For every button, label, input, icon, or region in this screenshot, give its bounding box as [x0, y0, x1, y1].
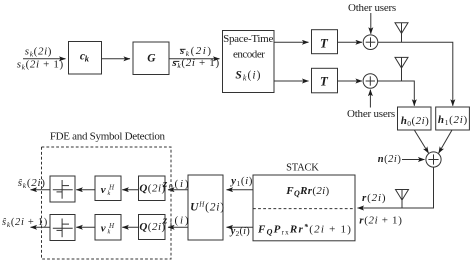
- svg-text:Q(2i): Q(2i): [139, 221, 165, 233]
- svg-text:STACK: STACK: [286, 162, 319, 173]
- svg-text:h0(2i): h0(2i): [401, 115, 430, 128]
- block T2: [312, 68, 338, 93]
- wire slicer1 output: [31, 189, 51, 191]
- wire STACK to UH row1: [227, 189, 254, 191]
- block h0: [398, 107, 432, 130]
- wire other-users top into adder1: [370, 13, 372, 34]
- wire v1 to slicer1: [76, 189, 95, 191]
- svg-text:z1(i): z1(i): [162, 215, 190, 228]
- block Space-Time encoder: [223, 31, 275, 93]
- bar over s of sbar_k(2i+1): [174, 60, 180, 62]
- adder3: [426, 152, 441, 167]
- wire h1 to adder3: [439, 130, 452, 153]
- svg-text:sk(2i): sk(2i): [25, 46, 52, 59]
- svg-text:y2(i): y2(i): [229, 226, 251, 238]
- svg-text:FDE and Symbol Detection: FDE and Symbol Detection: [50, 130, 166, 142]
- wire Q2 to v2: [122, 226, 138, 228]
- svg-text:sk(2i): sk(2i): [179, 45, 213, 58]
- block STACK: [253, 175, 355, 241]
- wire h0 to adder3: [414, 130, 428, 153]
- svg-text:Space-Time: Space-Time: [223, 33, 273, 45]
- antenna 2: [395, 57, 408, 68]
- wire UH to Q1: [168, 189, 188, 191]
- wire encoder to T1: [274, 41, 309, 43]
- svg-text:encoder: encoder: [233, 48, 265, 60]
- dashed line inside STACK: [253, 208, 355, 210]
- svg-text:r(2i): r(2i): [362, 192, 386, 204]
- block v1: [95, 176, 121, 201]
- wire G to encoder: [169, 58, 220, 60]
- wire adder1 to h1: [378, 42, 453, 106]
- wire adder3 to STACK: [358, 167, 434, 208]
- adder2: [363, 74, 377, 88]
- svg-text:ŝk(2i): ŝk(2i): [18, 177, 46, 190]
- slicer1 icon: [61, 180, 63, 199]
- wire c_k to G: [102, 58, 131, 60]
- svg-text:y1(i): y1(i): [229, 175, 253, 188]
- block Q1: [139, 176, 166, 201]
- block slicer2: [50, 215, 75, 241]
- svg-text:z0(i): z0(i): [162, 178, 190, 191]
- bar over s of sbar_k(2i): [180, 48, 186, 50]
- block slicer1: [50, 176, 75, 202]
- block T1: [312, 30, 338, 54]
- svg-text:sk(2i + 1): sk(2i + 1): [17, 59, 64, 72]
- wire input into c_k: [23, 58, 66, 60]
- wire T2 to adder2: [338, 80, 363, 82]
- svg-text:Sk(i): Sk(i): [235, 70, 261, 83]
- svg-text:T: T: [320, 36, 330, 51]
- wire Q1 to v1: [122, 189, 138, 191]
- svg-text:r(2i + 1): r(2i + 1): [359, 215, 402, 227]
- block v2: [95, 215, 121, 241]
- wire slicer2 output: [31, 226, 51, 228]
- wire encoder to T2: [274, 80, 309, 82]
- wire STACK to UH row2: [227, 226, 254, 228]
- wire adder2 to h0: [378, 81, 415, 106]
- svg-text:n(2i): n(2i): [378, 154, 402, 165]
- svg-text:Other users: Other users: [348, 2, 396, 14]
- block UH: [188, 175, 223, 240]
- svg-text:Q(2i): Q(2i): [139, 183, 165, 195]
- dashed FDE box: [42, 147, 172, 259]
- svg-text:ŝk(2i + 1): ŝk(2i + 1): [2, 217, 48, 229]
- antenna 3: [396, 190, 409, 201]
- antenna 1: [395, 23, 408, 34]
- wire T1 to adder1: [338, 41, 363, 43]
- wire v2 to slicer2: [76, 226, 95, 228]
- block h1: [436, 107, 470, 130]
- svg-text:h1(2i): h1(2i): [438, 114, 468, 127]
- wire UH to Q2: [168, 226, 188, 228]
- block G: [133, 42, 169, 75]
- svg-text:T: T: [320, 73, 330, 88]
- slicer2 icon: [61, 219, 63, 238]
- svg-text:Other users: Other users: [347, 108, 395, 120]
- svg-text:FQRr(2i): FQRr(2i): [285, 185, 329, 198]
- wire other-users bottom into adder2: [369, 90, 371, 108]
- wire n(2i) into adder3: [402, 159, 425, 161]
- svg-text:UH(2i): UH(2i): [190, 201, 225, 214]
- adder1: [363, 35, 378, 50]
- block Q2: [139, 215, 166, 240]
- block c_k: [69, 42, 102, 75]
